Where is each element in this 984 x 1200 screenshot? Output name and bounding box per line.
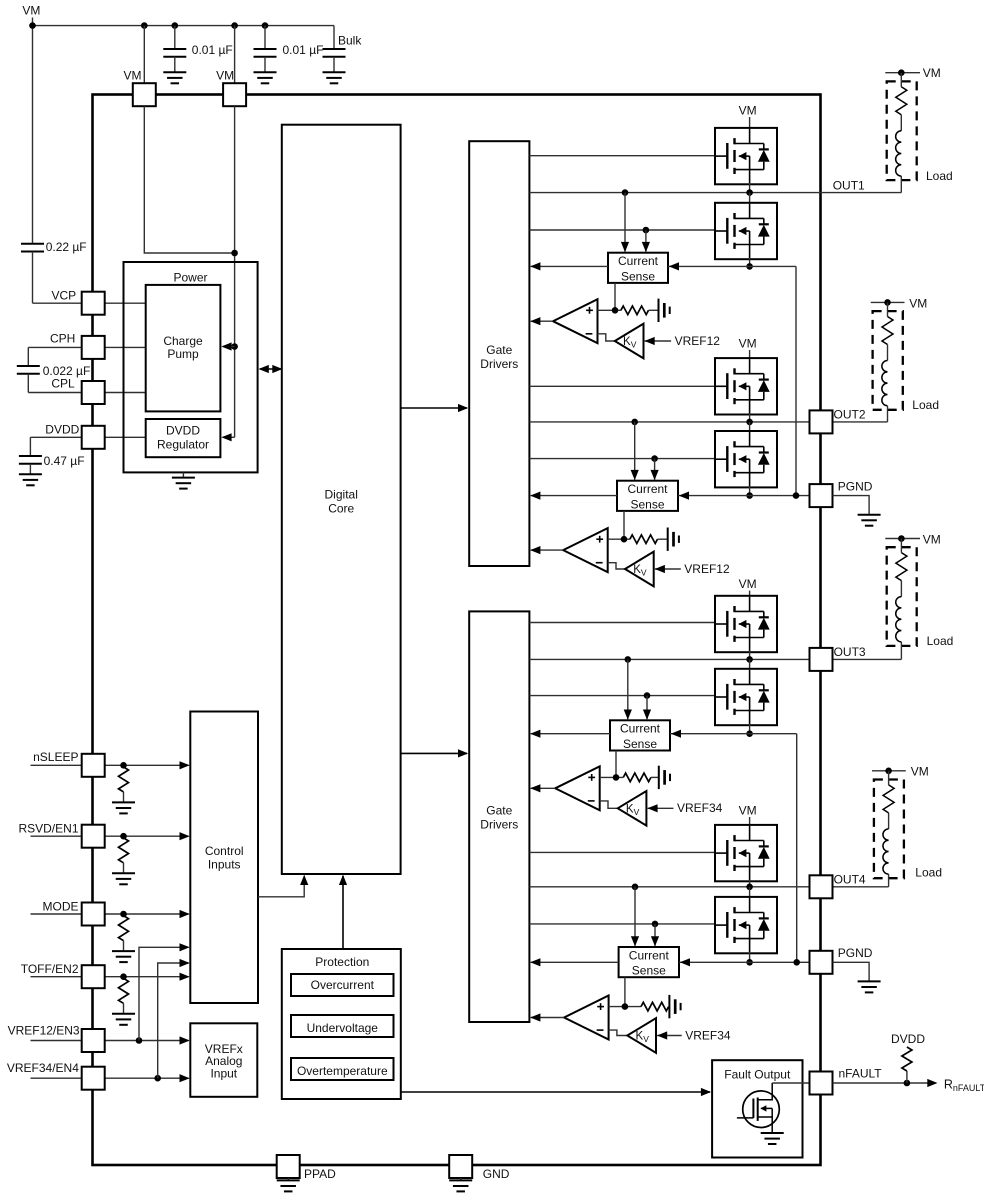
wire low-side source OUT3 — [749, 724, 751, 734]
junction dot OUT1 row sense tap — [622, 189, 629, 196]
svg-text:VREF34/EN4: VREF34/EN4 — [7, 1061, 79, 1075]
arrow comparator output into gate drivers OUT4 — [530, 1013, 540, 1021]
wire comparator output to gate drivers OUT2 — [531, 549, 563, 551]
svg-text:VREF34: VREF34 — [677, 801, 723, 815]
arrow Protection to Digital Core — [339, 875, 347, 885]
arrow TOFF/EN2 into Control Inputs — [180, 973, 190, 981]
resistor pulldown nSLEEP — [119, 767, 129, 792]
wire Protection to Fault Output — [401, 1091, 710, 1093]
terminal VREF12/EN3 — [82, 1029, 105, 1052]
svg-text:VM: VM — [739, 336, 757, 350]
svg-text:Overcurrent: Overcurrent — [311, 978, 375, 992]
terminal RSVD/EN1 — [82, 825, 105, 848]
wire resistor to offset source OUT1 — [649, 309, 659, 311]
terminal CPL — [82, 381, 105, 404]
resistor pulldown TOFF/EN2 — [119, 978, 129, 1003]
svg-text:Charge: Charge — [163, 334, 203, 348]
arrow RSVD/EN1 into Control Inputs — [180, 832, 190, 840]
terminal nSLEEP — [82, 754, 105, 777]
resistor DVDD pullup — [902, 1047, 912, 1071]
wire comparator plus input row OUT1 — [598, 309, 621, 311]
ground pulldown RSVD/EN1 — [112, 872, 135, 874]
op-amp comparator OUT4 — [564, 996, 609, 1040]
wire low-side drain OUT1 — [749, 193, 751, 204]
wire comparator plus input row OUT3 — [600, 776, 624, 778]
arrow low-side gate down to current sense OUT1 — [645, 230, 647, 252]
amplifier Kv OUT4 — [627, 1018, 656, 1053]
wire CPL row — [28, 392, 82, 394]
wire current sense output to gate drivers OUT4 — [531, 961, 619, 963]
svg-text:Overtemperature: Overtemperature — [297, 1064, 388, 1078]
svg-text:0.01 µF: 0.01 µF — [192, 43, 233, 57]
capacitor 0.47uF — [29, 437, 31, 456]
wire high-side source to OUT4 row — [749, 880, 751, 887]
load OUT3 (resistor + inductor) — [885, 538, 920, 540]
block DVDD Regulator — [146, 419, 221, 457]
terminal DVDD — [82, 426, 105, 449]
terminal MODE — [82, 903, 105, 926]
resistor offset OUT1 — [621, 306, 649, 315]
arrow Control to Digital Core — [300, 875, 308, 885]
wire nFAULT to pullup node — [833, 1082, 929, 1084]
terminal PGND1 — [810, 484, 833, 507]
wire VM2 terminal drop — [234, 26, 236, 84]
resistor offset OUT2 — [630, 535, 658, 544]
ground PGND2 — [858, 980, 881, 982]
svg-text:Input: Input — [210, 1066, 237, 1080]
arrow into DVDD regulator — [221, 433, 231, 441]
wire low-side source OUT4 — [749, 952, 751, 962]
fault FET body arrow — [761, 1107, 772, 1109]
arrow OUT3 row down to current sense — [627, 659, 629, 719]
wire high-side source to OUT3 row — [749, 651, 751, 659]
resistor offset OUT3 — [623, 773, 651, 782]
ground PGND1 — [858, 514, 881, 516]
ground fault FET — [761, 1132, 784, 1134]
block VREFx Analog Input — [190, 1023, 257, 1097]
arrow RnFAULT — [927, 1079, 937, 1087]
svg-text:0.022 µF: 0.022 µF — [43, 364, 91, 378]
svg-text:VM: VM — [923, 532, 941, 546]
wire Power to Digital Core bidirectional — [260, 368, 281, 370]
svg-text:VM: VM — [909, 296, 927, 310]
block Overcurrent — [291, 974, 394, 996]
fault FET channel — [757, 1098, 759, 1121]
ground pulldown MODE — [112, 950, 135, 952]
capacitor Bulk — [333, 26, 335, 49]
svg-text:Current: Current — [627, 482, 668, 496]
wire comparator minus step OUT2 — [608, 563, 625, 569]
wire VREF12/EN3 branch up to Control Inputs — [139, 947, 189, 1040]
arrow OUT1 row down to current sense — [624, 193, 626, 252]
junction dot OUT2 row at FET — [746, 419, 753, 426]
block Fault Output — [712, 1060, 802, 1157]
svg-text:Protection: Protection — [315, 955, 369, 969]
wire low-side drain OUT2 — [749, 422, 751, 432]
svg-text:PGND: PGND — [838, 480, 873, 494]
arrow current sense into gate drivers OUT2 — [530, 492, 540, 500]
svg-text:Sense: Sense — [621, 269, 655, 283]
arrow OUT2 row down to current sense — [634, 422, 636, 480]
wire MODE row — [31, 913, 83, 915]
junction dot OUT4 row sense tap — [632, 884, 639, 891]
terminal nFAULT — [810, 1072, 833, 1095]
junction dot OUT4 row at FET — [746, 884, 753, 891]
arrow comparator output into gate drivers OUT1 — [530, 317, 540, 325]
wire Control Inputs to Digital Core — [258, 876, 304, 897]
arrow low-side gate down to current sense OUT2 — [654, 459, 656, 480]
wire PGND1 to ground — [833, 496, 870, 515]
wire comparator plus input row OUT2 — [608, 538, 630, 540]
terminal TOFF/EN2 — [82, 965, 105, 988]
arrow into Gate Drivers 2 — [458, 749, 468, 757]
junction dot VM join — [231, 250, 238, 257]
junction dot charge pump tap — [231, 343, 238, 350]
wire VM stub into high-side FET OUT4 — [749, 817, 751, 826]
ground under Power block — [172, 477, 195, 479]
arrow comparator output into gate drivers OUT2 — [530, 546, 540, 554]
svg-text:OUT2: OUT2 — [834, 408, 866, 422]
wire comparator plus input row OUT4 — [609, 1006, 641, 1008]
ground PPAD — [277, 1179, 300, 1181]
transistor low-side FET OUT3 — [715, 669, 777, 725]
junction dot low-side gate sense tap OUT3 — [644, 692, 651, 699]
terminal CPH — [82, 336, 105, 359]
block Current Sense OUT2 — [617, 481, 678, 511]
svg-text:VREF12/EN3: VREF12/EN3 — [8, 1024, 80, 1038]
svg-text:Current: Current — [620, 722, 661, 736]
wire gate drivers to high-side gate OUT3 — [529, 622, 716, 624]
fault FET drain — [758, 1083, 773, 1100]
arrow current sense into gate drivers OUT3 — [530, 730, 540, 738]
wire current sense to comparator plus OUT1 — [614, 283, 616, 310]
junction dot low-side source OUT2 — [746, 492, 753, 499]
wire Digital Core to Gate Drivers 2 — [401, 752, 467, 754]
block Current Sense OUT1 — [608, 253, 668, 283]
wire VM stub into high-side FET OUT1 — [749, 117, 751, 129]
arrow sense row into current sense OUT3 — [671, 730, 681, 738]
wire CPH row — [28, 346, 82, 348]
svg-text:GND: GND — [483, 1167, 510, 1181]
svg-text:VCP: VCP — [52, 288, 77, 302]
svg-text:Fault Output: Fault Output — [724, 1068, 791, 1082]
svg-text:Bulk: Bulk — [338, 33, 362, 47]
junction dot comparator plus OUT3 — [613, 774, 620, 781]
svg-text:PPAD: PPAD — [304, 1167, 336, 1181]
amplifier Kv OUT3 — [618, 791, 647, 826]
wire VM stub into high-side FET OUT3 — [749, 591, 751, 597]
load OUT4 (resistor + inductor) — [872, 770, 906, 772]
svg-text:DVDD: DVDD — [166, 424, 200, 438]
wire PGND2 to ground — [833, 962, 870, 981]
junction dot comparator plus OUT4 — [622, 1003, 629, 1010]
svg-text:DVDD: DVDD — [45, 423, 79, 437]
junction dot TOFF/EN2 pulldown — [120, 973, 127, 980]
svg-text:Drivers: Drivers — [480, 357, 518, 371]
terminal OUT3 — [810, 648, 833, 671]
fault FET source — [758, 1117, 773, 1133]
wire resistor to offset source OUT4 — [668, 1006, 671, 1008]
svg-text:TOFF/EN2: TOFF/EN2 — [21, 962, 79, 976]
svg-text:0.47 µF: 0.47 µF — [44, 454, 85, 468]
svg-text:VM: VM — [911, 764, 929, 778]
amplifier Kv OUT1 — [615, 324, 644, 359]
block Gate Drivers 1 — [469, 141, 529, 566]
svg-text:DVDD: DVDD — [891, 1032, 925, 1046]
capacitor 0.01uF #2 — [264, 26, 266, 49]
svg-text:Regulator: Regulator — [157, 438, 209, 452]
wire OUT4 row — [529, 886, 888, 888]
wire VM into charge pump — [223, 346, 235, 348]
svg-text:VM: VM — [739, 103, 757, 117]
wire sense drop to PGND row OUT3 — [796, 734, 798, 963]
arrow EN3 into Control Inputs — [180, 943, 190, 951]
wire sense row OUT1 — [668, 265, 796, 267]
svg-text:Current: Current — [629, 948, 670, 962]
wire OUT3 row — [529, 658, 901, 660]
arrow sense row into current sense OUT2 — [679, 492, 689, 500]
svg-text:Sense: Sense — [632, 964, 666, 978]
terminal VM1 — [133, 83, 156, 106]
svg-text:0.01 µF: 0.01 µF — [283, 43, 324, 57]
svg-text:Sense: Sense — [623, 737, 657, 751]
terminal VREF34/EN4 — [82, 1067, 105, 1090]
wire VREF to Kv OUT3 — [648, 807, 674, 809]
svg-text:Core: Core — [328, 502, 354, 516]
wire high-side source to OUT2 row — [749, 414, 751, 422]
wire VREF to Kv OUT4 — [657, 1035, 682, 1037]
svg-text:OUT4: OUT4 — [834, 873, 866, 887]
svg-text:MODE: MODE — [43, 899, 79, 913]
transistor high-side FET OUT2 — [715, 358, 777, 414]
svg-text:RSVD/EN1: RSVD/EN1 — [18, 821, 78, 835]
fault FET gate lead — [737, 1117, 754, 1119]
junction dot RSVD/EN1 pulldown — [120, 833, 127, 840]
svg-text:Load: Load — [915, 866, 942, 880]
chip boundary — [93, 95, 821, 1166]
wire low-side source OUT2 — [749, 486, 751, 495]
svg-text:VM: VM — [124, 68, 142, 82]
terminal OUT2 — [810, 410, 833, 433]
block Current Sense OUT4 — [619, 947, 679, 977]
resistor pulldown RSVD/EN1 — [119, 838, 129, 863]
wire VCP row — [33, 302, 83, 304]
wire gate drivers to low-side gate OUT2 — [529, 458, 716, 460]
wire TOFF/EN2 row — [31, 976, 83, 978]
arrow into charge pump — [221, 342, 231, 350]
arrow Protection to Fault Output — [701, 1088, 711, 1096]
junction dot nFAULT pullup — [904, 1080, 911, 1087]
wire PPAD ground stub — [287, 1178, 289, 1180]
wire current sense to comparator plus OUT4 — [624, 977, 626, 1006]
svg-text:VREF12: VREF12 — [675, 334, 721, 348]
wire gate drivers to low-side gate OUT4 — [529, 923, 716, 925]
svg-text:VREF12: VREF12 — [684, 562, 730, 576]
svg-text:OUT1: OUT1 — [833, 178, 865, 192]
wire comparator minus step OUT1 — [598, 334, 615, 341]
svg-text:Sense: Sense — [630, 497, 664, 511]
svg-text:VM: VM — [216, 68, 234, 82]
block Charge Pump — [146, 285, 221, 412]
block Power — [124, 262, 258, 472]
junction dot OUT3 row sense tap — [625, 656, 632, 663]
arrow sense row into current sense OUT4 — [680, 958, 690, 966]
arrow MODE into Control Inputs — [180, 910, 190, 918]
ground under cap1 — [163, 71, 186, 73]
transistor high-side FET OUT4 — [715, 825, 777, 881]
junction dot MODE pulldown — [120, 911, 127, 918]
wire Protection to Digital Core — [342, 876, 344, 949]
wire gate drivers to high-side gate OUT2 — [529, 385, 716, 387]
transistor low-side FET OUT1 — [715, 203, 777, 259]
wire VM into DVDD regulator — [223, 436, 235, 438]
wire sense drop to PGND row OUT1 — [795, 266, 797, 495]
load OUT2 (resistor + inductor) — [871, 301, 905, 303]
wire VREF12/EN3 row — [31, 1040, 83, 1042]
wire VM top rail — [33, 25, 335, 27]
arrow VREF into Kv OUT3 — [647, 804, 657, 812]
transistor fault output FET circle — [743, 1091, 780, 1128]
svg-text:CPH: CPH — [50, 332, 75, 346]
amplifier Kv OUT2 — [625, 552, 654, 587]
svg-text:Inputs: Inputs — [208, 858, 241, 872]
wire VREF to Kv OUT2 — [655, 568, 681, 570]
wire gate drivers to low-side gate OUT1 — [529, 229, 716, 231]
offset voltage source OUT2 — [667, 528, 669, 551]
wire current sense output to gate drivers OUT3 — [531, 733, 610, 735]
wire resistor to offset source OUT3 — [651, 776, 659, 778]
terminal PGND2 — [810, 951, 833, 974]
svg-text:Power: Power — [173, 271, 207, 285]
svg-text:Digital: Digital — [325, 488, 358, 502]
wire VREF34/EN4 branch up to Control Inputs — [158, 963, 189, 1078]
terminal GND — [449, 1155, 472, 1178]
arrow VREF into Kv OUT4 — [657, 1031, 667, 1039]
ground GND — [449, 1179, 472, 1181]
wire comparator minus step OUT4 — [609, 1030, 628, 1035]
block Overtemperature — [291, 1058, 394, 1080]
wire VM1 terminal drop — [143, 26, 145, 84]
svg-text:Control: Control — [205, 844, 244, 858]
wire GND ground stub — [460, 1178, 462, 1180]
wire comparator minus step OUT3 — [600, 801, 618, 808]
junction dot PGND1 sense drop — [793, 492, 800, 499]
arrow VREF34/EN4 into VREFx block — [180, 1074, 190, 1082]
arrow current sense into gate drivers OUT1 — [530, 262, 540, 270]
arrow nSLEEP into Control Inputs — [180, 761, 190, 769]
wire OUT1 row — [529, 192, 901, 194]
arrow into Gate Drivers 1 — [458, 404, 468, 412]
wire current sense output to gate drivers OUT1 — [531, 265, 608, 267]
svg-text:OUT3: OUT3 — [834, 645, 866, 659]
wire low-side drain OUT3 — [749, 659, 751, 669]
junction dot nSLEEP pulldown — [120, 762, 127, 769]
wire low-side source OUT1 — [749, 258, 751, 266]
svg-text:VM: VM — [22, 3, 40, 17]
ground under bulk cap — [323, 71, 346, 73]
svg-text:nFAULT: nFAULT — [839, 1066, 883, 1080]
transistor high-side FET OUT3 — [715, 596, 777, 652]
junction dot comparator plus OUT1 — [612, 307, 619, 314]
offset voltage source OUT1 — [658, 299, 660, 322]
wire OUT2 row — [529, 421, 887, 423]
fault FET gate bar — [752, 1099, 754, 1118]
wire RSVD/EN1 row — [31, 835, 83, 837]
wire sense row to PGND terminal OUT2 — [678, 495, 810, 497]
svg-text:Load: Load — [912, 398, 939, 412]
wire current sense to comparator plus OUT2 — [623, 511, 625, 539]
svg-text:PGND: PGND — [838, 946, 873, 960]
junction dot OUT3 row at FET — [746, 656, 753, 663]
svg-text:Load: Load — [927, 634, 954, 648]
svg-text:VM: VM — [923, 66, 941, 80]
junction dots top rail — [29, 22, 36, 29]
svg-text:Current: Current — [618, 254, 659, 268]
junction dot low-side source OUT1 — [746, 263, 753, 270]
wire current sense to comparator plus OUT3 — [615, 751, 617, 778]
wire comparator output to gate drivers OUT3 — [531, 787, 555, 789]
resistor offset OUT4 — [641, 1002, 669, 1011]
wire gate drivers to high-side gate OUT4 — [529, 851, 716, 853]
op-amp comparator OUT3 — [555, 766, 600, 810]
block Control Inputs — [190, 712, 258, 1004]
block Digital Core — [282, 125, 401, 874]
block Gate Drivers 2 — [469, 611, 529, 1022]
svg-text:nSLEEP: nSLEEP — [33, 750, 78, 764]
wire power block ground stub — [182, 472, 184, 477]
arrow VREF into Kv OUT2 — [655, 565, 665, 573]
capacitor 0.22uF VCP — [21, 243, 44, 245]
ground pulldown TOFF/EN2 — [112, 1013, 135, 1015]
junction dot low-side gate sense tap OUT2 — [651, 455, 658, 462]
block Protection — [282, 949, 401, 1099]
resistor pulldown MODE — [119, 916, 129, 941]
wire VM vertical to VCP cap — [32, 18, 34, 244]
svg-text:Drivers: Drivers — [480, 818, 518, 832]
wire nSLEEP row — [31, 764, 83, 766]
transistor high-side FET OUT1 — [715, 128, 777, 184]
wire comparator output to gate drivers OUT1 — [531, 320, 553, 322]
transistor low-side FET OUT4 — [715, 897, 777, 953]
svg-text:Gate: Gate — [486, 804, 512, 818]
junction dot low-side gate sense tap OUT1 — [643, 227, 650, 234]
arrow left Power-DC — [259, 365, 269, 373]
arrow comparator output into gate drivers OUT3 — [530, 784, 540, 792]
svg-text:Undervoltage: Undervoltage — [307, 1021, 379, 1035]
wire VM stub into high-side FET OUT2 — [749, 350, 751, 359]
wire gate drivers to low-side gate OUT3 — [529, 695, 716, 697]
svg-text:Load: Load — [926, 169, 953, 183]
capacitor 0.022uF flying — [27, 347, 29, 366]
fault FET body tie — [771, 1108, 773, 1117]
svg-text:Pump: Pump — [167, 347, 199, 361]
arrow sense row into current sense OUT1 — [669, 262, 679, 270]
junction dot VREF12/EN3 — [136, 1037, 143, 1044]
wire comparator output to gate drivers OUT4 — [531, 1017, 564, 1019]
transistor low-side FET OUT2 — [715, 431, 777, 487]
wire pullup to nFAULT node — [906, 1071, 908, 1083]
wire sense row OUT3 — [670, 733, 797, 735]
junction dot low-side source OUT3 — [746, 730, 753, 737]
junction dot OUT1 row at FET — [746, 189, 753, 196]
arrow OUT4 row down to current sense — [634, 887, 636, 946]
svg-text:VM: VM — [739, 577, 757, 591]
ground under cap2 — [254, 71, 277, 73]
load OUT1 (resistor + inductor) — [885, 72, 920, 74]
junction dot low-side source OUT4 — [746, 959, 753, 966]
junction dot OUT2 row sense tap — [631, 419, 638, 426]
wire high-side source to OUT1 row — [749, 183, 751, 192]
